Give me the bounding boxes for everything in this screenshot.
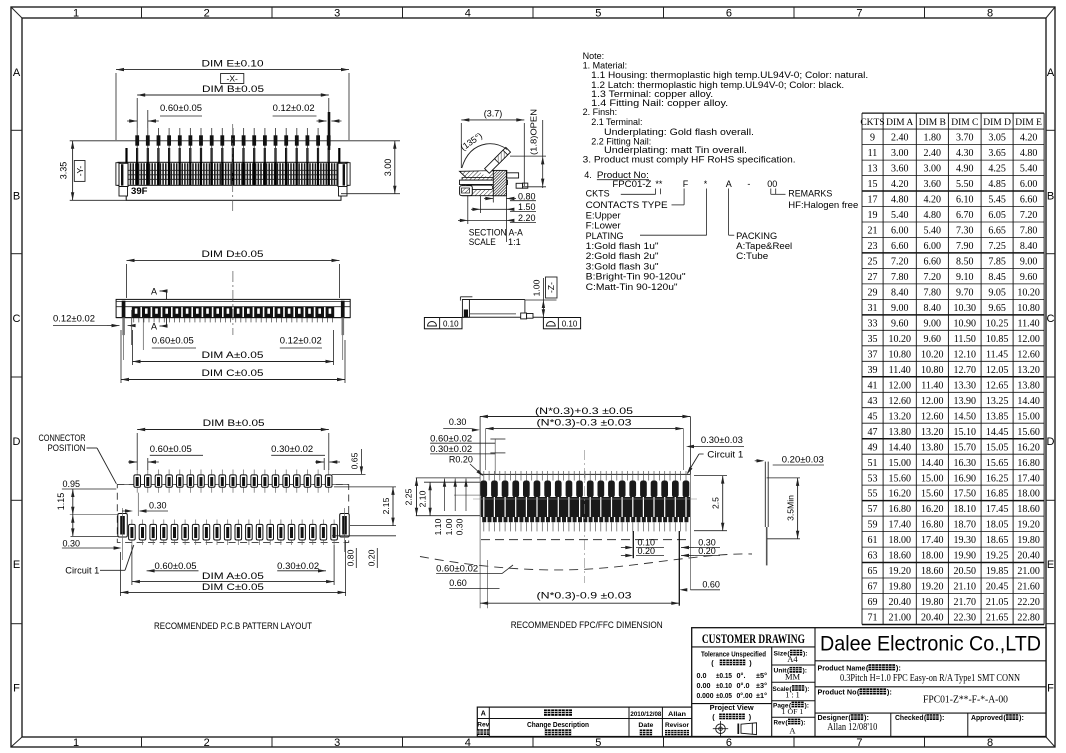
svg-text:C: C <box>1047 313 1055 325</box>
svg-text:10.30: 10.30 <box>954 303 977 314</box>
fpc top finger row <box>480 481 689 498</box>
svg-text:0.20: 0.20 <box>638 546 656 556</box>
svg-text:39: 39 <box>868 365 878 376</box>
fpc main contact band <box>481 497 691 517</box>
dim DIM B±0.05 pcb <box>137 418 329 470</box>
svg-text:6.00: 6.00 <box>924 241 942 252</box>
svg-text:1.80: 1.80 <box>924 133 942 144</box>
svg-text:):: ): <box>896 663 901 672</box>
fpc wavy break line <box>420 554 752 570</box>
svg-text:6.00: 6.00 <box>891 226 909 237</box>
section A-A caption <box>469 228 524 248</box>
svg-text:Allan: Allan <box>668 711 686 718</box>
svg-text:21.05: 21.05 <box>986 597 1009 608</box>
svg-text:F: F <box>683 179 689 189</box>
svg-text:12.60: 12.60 <box>1017 349 1040 360</box>
svg-text:1: 1 <box>73 8 79 20</box>
svg-text:17: 17 <box>868 195 878 206</box>
svg-text:3: 3 <box>334 8 340 20</box>
svg-text:DIM A: DIM A <box>886 118 913 128</box>
svg-text:):: ): <box>1019 713 1024 722</box>
svg-text:18.70: 18.70 <box>954 520 977 531</box>
dim 0.30±0.02 fpc <box>430 444 505 454</box>
dim 1.00 fpc left <box>444 479 457 536</box>
svg-text:21.65: 21.65 <box>986 613 1009 624</box>
svg-text:10.80: 10.80 <box>1017 303 1040 314</box>
dim 0.30 fpc top left <box>443 417 480 432</box>
svg-text:9.60: 9.60 <box>1020 272 1038 283</box>
svg-text:18.00: 18.00 <box>921 551 944 562</box>
svg-text:F:Lower: F:Lower <box>586 221 621 231</box>
svg-text:39F: 39F <box>131 186 148 197</box>
svg-text:0°.00: 0°.00 <box>737 692 753 700</box>
svg-text:0.10: 0.10 <box>562 319 578 328</box>
svg-text:Approved: Approved <box>971 713 1003 722</box>
svg-text:20.45: 20.45 <box>986 582 1009 593</box>
svg-text:6.00: 6.00 <box>1020 179 1038 190</box>
svg-text:9.60: 9.60 <box>924 334 942 345</box>
svg-text:1.50: 1.50 <box>518 202 536 212</box>
dim 2.20 <box>458 196 536 224</box>
svg-text:3.60: 3.60 <box>924 179 942 190</box>
svg-text:22.30: 22.30 <box>954 613 977 624</box>
svg-text:9: 9 <box>870 133 875 144</box>
dim 3.00 height right <box>341 141 400 194</box>
project view cell <box>710 703 757 736</box>
svg-text:B: B <box>13 191 20 203</box>
dim DIM D±0.05 <box>127 249 340 298</box>
top view housing <box>116 299 350 317</box>
svg-text:23: 23 <box>868 241 878 252</box>
svg-text:3.70: 3.70 <box>956 133 974 144</box>
svg-text:3.35: 3.35 <box>59 162 69 180</box>
svg-text:±0.15: ±0.15 <box>716 672 732 680</box>
svg-text:A:Tape&Reel: A:Tape&Reel <box>736 241 792 251</box>
svg-text:0.30: 0.30 <box>63 539 81 549</box>
svg-text:13.80: 13.80 <box>1017 380 1040 391</box>
top view centerline <box>232 271 234 335</box>
svg-text:16.30: 16.30 <box>954 458 977 469</box>
front view right fitting nail <box>338 163 350 196</box>
rev cell <box>774 719 806 736</box>
pcb bottom pad row <box>129 520 338 546</box>
svg-text:21.70: 21.70 <box>954 597 977 608</box>
svg-text:10.85: 10.85 <box>986 334 1009 345</box>
svg-text:15.00: 15.00 <box>921 473 944 484</box>
svg-text:18.10: 18.10 <box>954 504 977 515</box>
dim 1.00 with datum -Z- <box>525 277 557 318</box>
svg-text:55: 55 <box>868 489 878 500</box>
svg-text:CKTS: CKTS <box>860 118 884 128</box>
svg-text:7.20: 7.20 <box>1020 210 1038 221</box>
svg-text:DIM E: DIM E <box>1015 118 1042 128</box>
dim DIM B±0.05 <box>137 84 329 128</box>
svg-text:29: 29 <box>868 288 878 299</box>
pcb top pad row <box>117 470 348 493</box>
svg-text:18.65: 18.65 <box>986 535 1009 546</box>
dim 2.15 right <box>334 487 396 526</box>
svg-text:8.50: 8.50 <box>956 257 974 268</box>
svg-text:25: 25 <box>868 257 878 268</box>
svg-text:21.00: 21.00 <box>1017 566 1040 577</box>
dim 0.12±0.02 right <box>280 336 322 349</box>
svg-text:2.15: 2.15 <box>381 497 391 514</box>
section A-A 135 deg arc <box>459 131 507 168</box>
svg-text:):: ): <box>864 713 869 722</box>
product name row <box>818 663 1021 684</box>
dim DIM C±0.05 pcb <box>120 540 345 596</box>
section marker A-A <box>151 287 168 332</box>
svg-text:(1.8)OPEN: (1.8)OPEN <box>529 109 539 155</box>
svg-text:Date: Date <box>638 722 653 729</box>
svg-text:10.25: 10.25 <box>986 319 1009 330</box>
svg-text:15.60: 15.60 <box>921 489 944 500</box>
pcb dashed connector outline <box>117 484 348 542</box>
svg-text:41: 41 <box>868 380 878 391</box>
svg-text:DIM B: DIM B <box>919 118 946 128</box>
page cell <box>773 702 809 716</box>
svg-text:0.20: 0.20 <box>698 546 716 556</box>
svg-text:13.30: 13.30 <box>954 380 977 391</box>
svg-text:19.25: 19.25 <box>986 551 1009 562</box>
svg-text:A: A <box>481 711 486 718</box>
svg-text:13.80: 13.80 <box>888 427 911 438</box>
svg-text:18.60: 18.60 <box>921 566 944 577</box>
svg-text:Circuit 1: Circuit 1 <box>707 450 743 460</box>
svg-text:2: 2 <box>204 737 210 749</box>
svg-text:4.: 4. <box>584 170 592 180</box>
dim 0.60±0.02 fpc <box>430 434 505 476</box>
svg-text:16.80: 16.80 <box>1017 458 1040 469</box>
dim 0.30±0.02 pcb top <box>271 444 340 470</box>
fpc finger tails lower <box>484 522 686 531</box>
svg-text:15.05: 15.05 <box>986 442 1009 453</box>
svg-text:1 OF 1: 1 OF 1 <box>782 707 804 716</box>
svg-text:16.85: 16.85 <box>986 489 1009 500</box>
svg-text:19.20: 19.20 <box>1017 520 1040 531</box>
svg-text:2.25: 2.25 <box>404 488 414 505</box>
svg-text:7.80: 7.80 <box>1020 226 1038 237</box>
svg-text:2:Gold flash 2u": 2:Gold flash 2u" <box>586 251 659 261</box>
svg-text:13.25: 13.25 <box>986 396 1009 407</box>
svg-text:0.30: 0.30 <box>449 417 467 427</box>
svg-text:Allan 12/08'10: Allan 12/08'10 <box>827 722 877 733</box>
svg-text:19: 19 <box>868 210 878 221</box>
svg-text:A: A <box>726 179 732 189</box>
svg-text:A4: A4 <box>787 654 798 664</box>
svg-text:3. Product must comply HF: 3. Product must comply HF RoHS specifica… <box>583 154 796 164</box>
svg-text:0.000: 0.000 <box>697 692 714 700</box>
svg-text:D: D <box>13 436 21 448</box>
svg-text:5.45: 5.45 <box>988 195 1006 206</box>
svg-text:7.90: 7.90 <box>956 241 974 252</box>
svg-text:4.80: 4.80 <box>924 210 942 221</box>
svg-text:7.20: 7.20 <box>891 257 909 268</box>
svg-text:19.80: 19.80 <box>921 597 944 608</box>
dim 2.5 fpc right <box>694 476 727 531</box>
dim DIM E±0.10 <box>116 59 349 141</box>
svg-text:Designer: Designer <box>818 713 849 722</box>
svg-text:1.1 Housing: thermoplastic: 1.1 Housing: thermoplastic high temp.UL9… <box>591 70 868 80</box>
svg-text:-X-: -X- <box>227 74 239 84</box>
svg-text:0.0: 0.0 <box>697 672 707 680</box>
svg-text:53: 53 <box>868 473 878 484</box>
svg-text:-Z-: -Z- <box>546 282 556 293</box>
datum -X- box <box>221 74 244 84</box>
svg-text:21.10: 21.10 <box>954 582 977 593</box>
svg-text:4.85: 4.85 <box>988 179 1006 190</box>
notes text block <box>583 51 869 165</box>
dim 0.30 nail width <box>62 539 122 550</box>
svg-text:Rev: Rev <box>477 722 489 729</box>
svg-text:10.20: 10.20 <box>921 349 944 360</box>
dim 0.20 fpc right small <box>681 546 720 557</box>
svg-text:2010/12/08: 2010/12/08 <box>630 711 661 718</box>
dim DIM A±0.05 pcb <box>132 545 334 585</box>
svg-text:13.20: 13.20 <box>888 411 911 422</box>
dim (N*0.3)-0.3 ±0.03 <box>486 418 684 471</box>
svg-text:57: 57 <box>868 504 878 515</box>
svg-text:3.5Min: 3.5Min <box>785 495 795 521</box>
svg-text:±0.10: ±0.10 <box>716 682 732 690</box>
svg-text:5.40: 5.40 <box>924 226 942 237</box>
svg-text:4: 4 <box>465 737 471 749</box>
svg-text:4.25: 4.25 <box>988 164 1006 175</box>
svg-text:±1°: ±1° <box>756 692 767 700</box>
svg-text:(N*0.3)-0.9 ±0.03: (N*0.3)-0.9 ±0.03 <box>537 591 632 601</box>
svg-text:19.20: 19.20 <box>921 582 944 593</box>
svg-text:2.40: 2.40 <box>891 133 909 144</box>
svg-text:17.45: 17.45 <box>986 504 1009 515</box>
svg-text:2. Finsh:: 2. Finsh: <box>583 107 618 117</box>
svg-text:8.40: 8.40 <box>1020 241 1038 252</box>
svg-text:):: ): <box>940 713 945 722</box>
circuit 1 label fpc <box>687 450 744 475</box>
svg-text:0.00: 0.00 <box>697 682 711 690</box>
svg-text:2.20: 2.20 <box>518 213 536 223</box>
svg-text:18.60: 18.60 <box>1017 504 1040 515</box>
svg-text:0°.: 0°. <box>737 672 746 680</box>
svg-text:1: 1 <box>73 737 79 749</box>
svg-text:±5°: ±5° <box>756 672 767 680</box>
svg-text:13.20: 13.20 <box>921 427 944 438</box>
svg-text:1 : 1: 1 : 1 <box>785 691 800 700</box>
svg-text:0.60±0.05: 0.60±0.05 <box>152 336 194 346</box>
svg-text:):: ): <box>801 719 806 726</box>
svg-text:13.20: 13.20 <box>1017 365 1040 376</box>
svg-text:9.00: 9.00 <box>1020 257 1038 268</box>
svg-text:00: 00 <box>767 179 777 189</box>
svg-text:6: 6 <box>726 8 732 20</box>
pin row <box>135 128 330 162</box>
svg-text:37: 37 <box>868 349 878 360</box>
svg-text:18.60: 18.60 <box>888 551 911 562</box>
dim 3.5Min fpc side <box>767 478 800 539</box>
front view housing <box>70 141 400 186</box>
svg-text:B:Bright-Tin 90-120u": B:Bright-Tin 90-120u" <box>586 272 686 282</box>
front view centerline <box>232 124 234 214</box>
svg-text:9.05: 9.05 <box>988 288 1006 299</box>
svg-text:DIM B±0.05: DIM B±0.05 <box>203 418 265 428</box>
svg-text:Note:: Note: <box>583 51 605 61</box>
svg-text:E: E <box>1047 559 1054 571</box>
dim nail pad vertical left <box>71 515 118 537</box>
dim (N*0.3)-0.9 ±0.03 <box>480 591 679 605</box>
svg-text:CONTACTS TYPE: CONTACTS TYPE <box>586 200 668 210</box>
svg-text:F: F <box>13 683 20 695</box>
section A-A latch open <box>485 147 511 173</box>
svg-text:14.40: 14.40 <box>1017 396 1040 407</box>
top view right nail contact <box>341 301 345 360</box>
dim 0.65 pad length <box>332 447 366 475</box>
svg-text:9.10: 9.10 <box>956 272 974 283</box>
svg-text:71: 71 <box>868 613 878 624</box>
dim 0.60±0.05 pcb bottom <box>147 561 199 573</box>
svg-text:0.60±0.05: 0.60±0.05 <box>150 444 192 454</box>
svg-text:15.60: 15.60 <box>888 473 911 484</box>
revision table <box>477 707 692 736</box>
svg-text:1.15: 1.15 <box>56 493 66 511</box>
svg-text:20.50: 20.50 <box>954 566 977 577</box>
svg-text:9.70: 9.70 <box>956 288 974 299</box>
dim 0.60 fpc bottom right <box>679 580 720 592</box>
svg-text:12.60: 12.60 <box>921 411 944 422</box>
side view part left <box>460 297 543 319</box>
svg-text:11: 11 <box>868 148 878 159</box>
dim R0.20 fpc <box>449 455 484 477</box>
svg-text:11.50: 11.50 <box>954 334 976 345</box>
svg-text:19.85: 19.85 <box>986 566 1009 577</box>
svg-text:):: ): <box>805 702 810 709</box>
svg-text:6.70: 6.70 <box>956 210 974 221</box>
svg-text:DIM D±0.05: DIM D±0.05 <box>202 249 264 259</box>
svg-text:0.65: 0.65 <box>350 452 360 469</box>
dim (N*0.3)+0.3 ±0.05 <box>480 406 691 418</box>
svg-text:0.60±0.05: 0.60±0.05 <box>160 103 202 113</box>
svg-text:4.80: 4.80 <box>891 195 909 206</box>
dim 0.12±0.02 terminal width <box>273 103 342 150</box>
product no row <box>818 688 1009 706</box>
svg-text:5: 5 <box>595 8 601 20</box>
svg-text:Underplating: Gold flash ov: Underplating: Gold flash overall. <box>604 127 754 137</box>
svg-text:7.80: 7.80 <box>924 288 942 299</box>
svg-text:Circuit 1: Circuit 1 <box>65 566 99 576</box>
fpc side view strip <box>765 462 768 566</box>
svg-text:0.12±0.02: 0.12±0.02 <box>53 314 95 324</box>
dim 0.80 <box>484 191 536 242</box>
svg-text:7: 7 <box>856 737 862 749</box>
svg-text:19.20: 19.20 <box>888 566 911 577</box>
dim 0.20 right <box>367 548 378 568</box>
ckts callout <box>586 189 661 199</box>
svg-text:17.40: 17.40 <box>921 535 944 546</box>
svg-text:17.40: 17.40 <box>1017 473 1040 484</box>
svg-text:15.65: 15.65 <box>986 458 1009 469</box>
svg-text:0.60±0.02: 0.60±0.02 <box>430 434 472 444</box>
svg-text:11.45: 11.45 <box>986 349 1008 360</box>
svg-text:MM: MM <box>785 672 801 682</box>
svg-text:(N*0.3)-0.3 ±0.03: (N*0.3)-0.3 ±0.03 <box>537 418 632 428</box>
svg-text:DIM C: DIM C <box>951 118 978 128</box>
svg-text:16.20: 16.20 <box>921 504 944 515</box>
svg-text:16.20: 16.20 <box>1017 442 1040 453</box>
dimension table <box>860 113 1044 624</box>
svg-text:15.00: 15.00 <box>888 458 911 469</box>
svg-text:35: 35 <box>868 334 878 345</box>
unit cell <box>774 667 808 682</box>
circuit 1 label pcb <box>65 545 134 576</box>
svg-text:15: 15 <box>868 179 878 190</box>
svg-text:20.40: 20.40 <box>921 613 944 624</box>
svg-text:DIM E±0.10: DIM E±0.10 <box>202 59 264 69</box>
svg-text:10.20: 10.20 <box>888 334 911 345</box>
dim 0.20 fpc <box>621 546 664 557</box>
svg-text:HF:Halogen free: HF:Halogen free <box>788 200 858 210</box>
svg-text:6.65: 6.65 <box>988 226 1006 237</box>
svg-text:0.80: 0.80 <box>346 549 356 566</box>
fpc dashed edge line <box>481 539 690 541</box>
svg-text:):: ): <box>803 651 808 658</box>
svg-text:D: D <box>1047 436 1055 448</box>
contacts type callout <box>586 189 685 231</box>
svg-text:16.80: 16.80 <box>888 504 911 515</box>
svg-text:SCALE: SCALE <box>469 237 496 247</box>
svg-text:6.10: 6.10 <box>956 195 974 206</box>
svg-text:61: 61 <box>868 535 878 546</box>
fpc bottom pad squares <box>482 517 688 522</box>
svg-text:9.65: 9.65 <box>988 303 1006 314</box>
svg-text:1:1: 1:1 <box>508 237 521 247</box>
svg-text:E:Upper: E:Upper <box>586 210 621 220</box>
flatness frame left <box>424 318 462 329</box>
svg-text:Change Description: Change Description <box>527 722 589 729</box>
dim (1.8)OPEN <box>510 109 546 188</box>
dim 0.30±0.03 fpc right <box>686 435 744 448</box>
svg-text:69: 69 <box>868 597 878 608</box>
svg-text:18.00: 18.00 <box>1017 489 1040 500</box>
svg-text:(N*0.3)+0.3 ±0.05: (N*0.3)+0.3 ±0.05 <box>535 406 633 416</box>
svg-text:1.00: 1.00 <box>532 279 542 296</box>
svg-text:15.60: 15.60 <box>1017 427 1040 438</box>
svg-text:8.40: 8.40 <box>924 303 942 314</box>
svg-text:4.80: 4.80 <box>1020 148 1038 159</box>
svg-text:5: 5 <box>595 737 601 749</box>
svg-text:2.40: 2.40 <box>924 148 942 159</box>
svg-text:3.00: 3.00 <box>891 148 909 159</box>
svg-text:17.50: 17.50 <box>954 489 977 500</box>
svg-text:5.40: 5.40 <box>1020 164 1038 175</box>
tolerance cell <box>697 649 768 700</box>
front view base <box>119 185 341 200</box>
svg-text:10.80: 10.80 <box>921 365 944 376</box>
svg-text:POSITION: POSITION <box>48 443 86 453</box>
svg-text:Tolerance Unspecified: Tolerance Unspecified <box>701 649 766 658</box>
svg-text:FPC01-Z**-F-*-A-00: FPC01-Z**-F-*-A-00 <box>923 694 1008 705</box>
svg-text:1:Gold flash 1u": 1:Gold flash 1u" <box>586 241 659 251</box>
svg-text:22.80: 22.80 <box>1017 613 1040 624</box>
svg-text:Rev: Rev <box>774 719 786 726</box>
svg-text:F: F <box>1047 683 1054 695</box>
svg-text:16.20: 16.20 <box>888 489 911 500</box>
svg-text:15.70: 15.70 <box>954 442 977 453</box>
svg-text:0.20±0.03: 0.20±0.03 <box>782 455 824 465</box>
svg-text:1.00: 1.00 <box>444 518 454 535</box>
svg-text:2.10: 2.10 <box>418 490 428 507</box>
svg-text:±3°: ±3° <box>756 682 767 690</box>
fpc body top edge <box>480 417 690 475</box>
remarks callout <box>771 189 859 211</box>
dim 1.15 left <box>56 489 118 515</box>
